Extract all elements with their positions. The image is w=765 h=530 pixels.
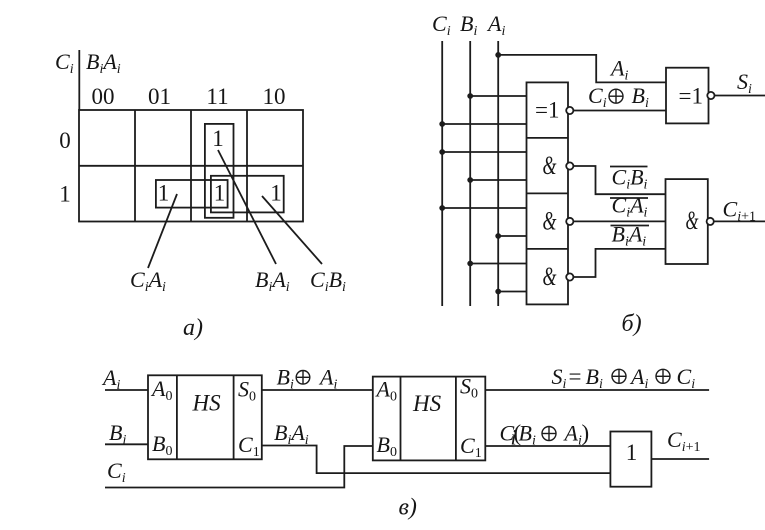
output XOR gate box [666, 68, 709, 124]
svg-text:а): а) [183, 315, 203, 341]
bus Ci [441, 41, 443, 306]
svg-text:BiAi: BiAi [255, 267, 290, 295]
wire AND3 out to output AND [573, 249, 665, 277]
wire Ci to XOR1 input [442, 123, 526, 125]
junction dot Bi y180 [467, 177, 473, 183]
wire Ai to AND3 input [498, 291, 526, 293]
svg-text:CiBi: CiBi [612, 165, 648, 193]
svg-text:1: 1 [270, 181, 282, 206]
svg-text:&: & [543, 262, 558, 291]
half-adder HS2 box [373, 377, 486, 461]
svg-text:&: & [543, 206, 558, 235]
junction dot Bi y263 [467, 261, 473, 267]
svg-text:1: 1 [626, 440, 638, 465]
wire XOR1 out to output XOR [573, 110, 666, 112]
gate stack XOR1 AND1 AND2 AND3 [527, 82, 569, 304]
inverter bubble XOR1 [566, 107, 573, 114]
svg-text:=1: =1 [535, 98, 559, 123]
junction dot Ai top [495, 52, 501, 58]
wire Ci+1 output [651, 458, 709, 460]
inverter bubble AND3 [566, 273, 573, 280]
wire Bi input [105, 443, 148, 445]
wire AND1 out to output AND [573, 166, 665, 194]
svg-text:11: 11 [206, 84, 228, 109]
K-map header divider [78, 50, 80, 110]
svg-text:1: 1 [212, 126, 224, 151]
svg-text:CiAi: CiAi [130, 267, 166, 295]
svg-text:): ) [582, 421, 590, 446]
svg-text:0: 0 [59, 128, 71, 153]
svg-text:HS: HS [192, 391, 222, 416]
svg-text:10: 10 [263, 84, 286, 109]
inverter bubble output AND [707, 218, 714, 225]
wire Ci to AND2 input [442, 207, 526, 209]
bus Ai [497, 41, 499, 306]
svg-text:BiAi: BiAi [86, 49, 121, 77]
overbar of CiBi [610, 166, 648, 168]
wire AND2 out to output AND [573, 220, 665, 222]
wire Bi to AND3 input [470, 263, 526, 265]
svg-text:BiAi: BiAi [612, 222, 647, 250]
PANEL B [442, 41, 765, 306]
overbar of CiAi [610, 197, 648, 199]
svg-text:б): б) [622, 311, 642, 337]
inverter bubble output XOR [707, 92, 714, 99]
svg-text:CiAi: CiAi [612, 193, 648, 221]
svg-text:1: 1 [158, 181, 170, 206]
wire label Si = Bi xor Ai xor Ci [552, 364, 696, 392]
leader line to BiAi label [218, 150, 276, 264]
half-adder HS1 box [148, 375, 262, 459]
wire Ai branch to output XOR [498, 55, 666, 83]
wire HS2 S0 (Si) output [485, 389, 709, 391]
junction dot Bi y96 [467, 93, 473, 99]
svg-text:00: 00 [92, 84, 115, 109]
svg-text:HS: HS [412, 391, 442, 416]
svg-text:1: 1 [59, 182, 71, 207]
wire HS1 S0 to HS2 A0 [262, 389, 373, 391]
inverter bubble AND1 [566, 162, 573, 169]
wire Ai to AND2 input [498, 235, 526, 237]
svg-text:1: 1 [214, 181, 226, 206]
svg-text:CiBi: CiBi [310, 267, 346, 295]
OR gate box [610, 432, 651, 487]
wire Ci input [105, 446, 373, 488]
wire label Ci xor Bi [588, 83, 649, 111]
wire label Ci(Bi xor Ai) [500, 421, 590, 450]
wire Bi to AND1 input [470, 179, 526, 181]
K-map grid [79, 110, 303, 222]
junction dot Ci y208 [439, 205, 445, 211]
svg-text:BiAi: BiAi [274, 420, 309, 448]
svg-text:в): в) [399, 495, 417, 521]
svg-text:&: & [686, 206, 699, 235]
output AND gate box [666, 179, 708, 264]
wire label Bi xor Ai [277, 365, 338, 393]
bus Bi [469, 41, 471, 306]
PANEL C [105, 375, 709, 487]
wire HS1 C1 (BiAi) to OR gate [262, 446, 611, 474]
wire Ai input [105, 389, 148, 391]
inverter bubble AND2 [566, 218, 573, 225]
svg-text:=1: =1 [679, 84, 703, 109]
wire Si output [715, 95, 765, 97]
wire Ci+1 output [714, 220, 765, 222]
leader line to CiBi label [262, 196, 322, 264]
junction dot Ai y291 [495, 289, 501, 295]
junction dot Ai y236 [495, 233, 501, 239]
group rect CiAi [156, 180, 228, 208]
svg-text:=: = [569, 364, 582, 389]
overbar of BiAi [611, 225, 650, 227]
junction dot Ci y152 [439, 149, 445, 155]
svg-text:&: & [543, 151, 558, 180]
leader line to CiAi label [148, 194, 177, 268]
wire Ci to AND1 input [442, 151, 526, 153]
wire Bi to XOR1 input [470, 95, 526, 97]
wire HS2 C1 to OR gate [485, 445, 610, 447]
svg-text:01: 01 [148, 84, 171, 109]
junction dot Ci y124 [439, 121, 445, 127]
group rect BiAi [205, 124, 234, 218]
group rect CiBi [211, 176, 284, 213]
